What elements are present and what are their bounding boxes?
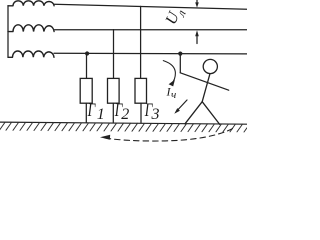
winding L2 (phase 2 source coil) xyxy=(8,25,54,32)
ground hatching xyxy=(0,122,247,132)
svg-text:2: 2 xyxy=(121,106,129,123)
wire R3 to ground xyxy=(140,103,142,123)
wire R2 to ground xyxy=(112,103,114,123)
svg-text:Г: Г xyxy=(87,100,96,121)
current Ich curved arrow xyxy=(163,61,175,87)
wire R1 to ground xyxy=(85,103,87,122)
resistor r2 xyxy=(108,78,120,103)
voltage dimension line Ul lower arrow (points up at phase line 2) xyxy=(195,30,199,43)
wire phase line 3 xyxy=(54,52,247,55)
wire resistor R1 drop from phase line 3 xyxy=(86,54,88,79)
node junction dot on phase line 3 for R1 xyxy=(85,51,89,55)
wire phase line 2 xyxy=(55,29,247,31)
current arrow into ground at feet xyxy=(174,100,187,114)
winding L3 (phase 3 source coil) xyxy=(8,51,54,57)
person arms (hand on wire to lower right hand) xyxy=(180,73,228,90)
label r2 xyxy=(114,100,129,123)
label r3 xyxy=(144,100,159,123)
label r1 xyxy=(87,100,105,123)
wire from phase line 3 down to person's hand xyxy=(179,54,181,73)
resistor r3 xyxy=(135,78,147,103)
wire phase line 1 xyxy=(54,4,247,9)
ground surface line xyxy=(0,122,247,124)
svg-text:3: 3 xyxy=(151,106,160,123)
svg-text:1: 1 xyxy=(97,106,105,123)
label Ich (current through person) xyxy=(166,85,177,102)
wire resistor R2 drop from phase line 2 xyxy=(113,30,115,79)
node junction dot on phase line 3 for person contact xyxy=(178,52,182,56)
person head xyxy=(203,59,217,73)
resistor r1 xyxy=(80,78,92,103)
label Ul (line voltage) rotated xyxy=(163,4,189,29)
svg-text:ч: ч xyxy=(171,89,176,101)
wire left bus connecting windings xyxy=(7,6,9,58)
winding L1 (phase 1 source coil) xyxy=(8,1,54,6)
voltage dimension line Ul upper arrow (points down at phase line 1) xyxy=(195,0,199,8)
dashed ground-current return arc with left arrowhead xyxy=(100,129,233,141)
person body xyxy=(202,74,210,102)
person right leg xyxy=(202,102,220,125)
person left leg xyxy=(185,102,202,124)
wire resistor R3 drop from phase line 1 xyxy=(140,6,142,78)
